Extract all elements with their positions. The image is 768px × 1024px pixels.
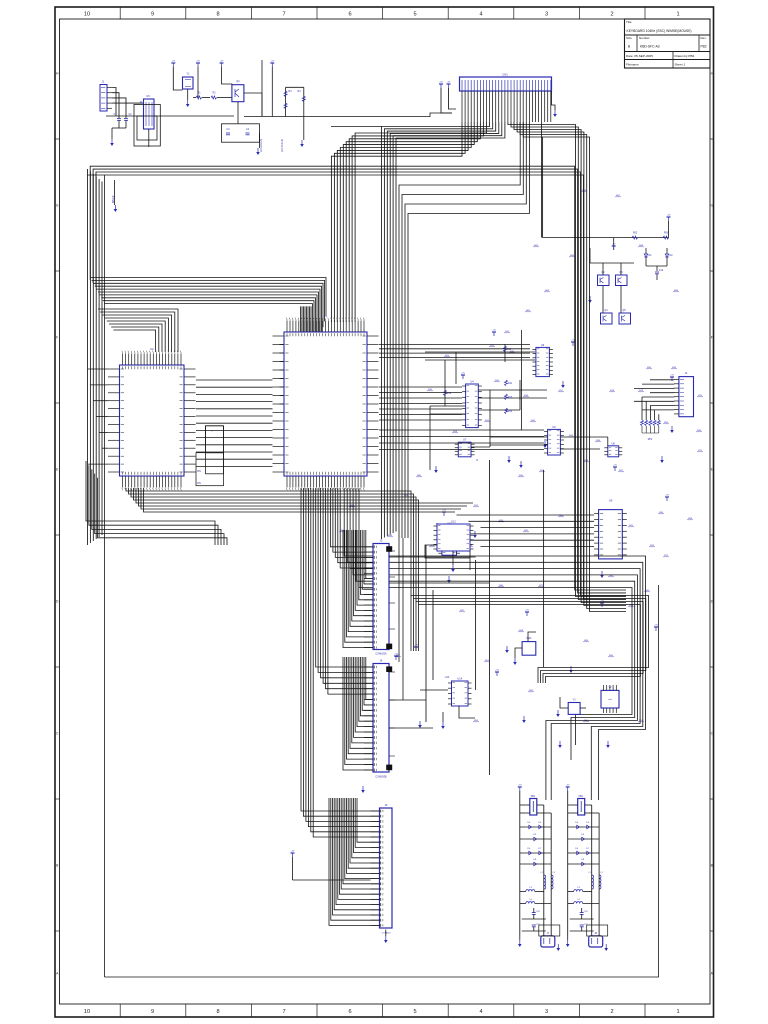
svg-text:+5V: +5V — [270, 61, 274, 63]
svg-text:Y3: Y3 — [573, 699, 577, 702]
ground symbol G7 — [434, 466, 438, 473]
ground symbol G9 — [561, 381, 565, 388]
svg-text:D5: D5 — [581, 834, 585, 836]
wire bus U2 left pin feeds — [88, 369, 109, 464]
wire staircase near J4 — [343, 657, 373, 770]
svg-text:FB1: FB1 — [531, 796, 536, 798]
net label N61 — [697, 395, 703, 397]
wire bus CN1 left staircase to U1 top — [331, 122, 486, 322]
resistor row RN2 under J2 — [641, 420, 661, 441]
diode D1 — [644, 248, 652, 266]
net label N36 — [608, 575, 614, 577]
wire Q2-Q5 network — [590, 248, 634, 313]
svg-text:RP2: RP2 — [648, 439, 653, 441]
diode row 4 J7 — [520, 859, 551, 866]
net label N46 — [638, 720, 644, 722]
net label N29 — [658, 512, 664, 514]
svg-text:Q5: Q5 — [622, 309, 626, 312]
ground symbol G1 — [473, 531, 477, 538]
svg-text:L3: L3 — [577, 887, 580, 889]
net label N31 — [509, 351, 515, 353]
net label N30 — [687, 518, 693, 520]
wire bus CN1 right staircase — [508, 122, 626, 612]
net label N44 — [473, 720, 479, 722]
svg-text:H: H — [56, 72, 59, 76]
svg-text:C: C — [56, 732, 59, 736]
transistor Q2 pair — [598, 271, 610, 286]
svg-text:FB2: FB2 — [633, 233, 638, 235]
connector J2 right edge — [674, 371, 694, 417]
wire bus U1 right to U6 — [379, 430, 544, 450]
resistor R14 — [505, 408, 513, 414]
power flag VP9 — [654, 625, 658, 631]
net label N42 — [484, 660, 490, 662]
svg-text:9: 9 — [151, 1009, 154, 1015]
svg-text:J4: J4 — [380, 659, 383, 663]
svg-text:D4: D4 — [538, 822, 542, 824]
net label N64 — [628, 605, 634, 607]
power flag VP3 — [571, 340, 575, 346]
ground under U12 — [451, 551, 455, 572]
net label N10 — [638, 390, 644, 392]
power above J4 — [394, 654, 398, 660]
connector J3 — [364, 539, 392, 656]
net label N45 — [583, 720, 589, 722]
connector J8 (PS/2 jack) — [589, 932, 603, 947]
svg-text:+5V: +5V — [613, 465, 617, 467]
net label N50 — [339, 530, 345, 532]
wire J7 vertical pair through chain — [544, 805, 551, 936]
wire junction block right of U2 — [196, 426, 224, 486]
IC U3 — [532, 343, 553, 377]
svg-text:5: 5 — [413, 11, 416, 17]
svg-text:U2: U2 — [150, 347, 154, 351]
svg-text:+5V: +5V — [291, 851, 295, 853]
capacitor pair J7 — [522, 904, 546, 932]
svg-text:L1: L1 — [541, 872, 544, 874]
svg-text:+5V: +5V — [667, 215, 671, 217]
IC U14 — [448, 677, 472, 707]
net label near U14 — [445, 676, 450, 679]
net label N7 — [523, 395, 529, 397]
svg-text:D7: D7 — [586, 848, 590, 850]
svg-text:C1: C1 — [113, 113, 117, 116]
svg-text:+5V: +5V — [196, 61, 200, 63]
svg-text:Sheet 1: Sheet 1 — [675, 63, 686, 67]
power flag P3 — [220, 61, 232, 85]
svg-text:U4: U4 — [470, 380, 474, 384]
net label N33 — [530, 420, 536, 422]
net label N52 — [403, 495, 409, 497]
net label N4 — [504, 331, 510, 333]
IC U7 — [455, 438, 475, 457]
ground symbol G15 — [569, 666, 573, 673]
filter chain J8 power — [566, 785, 570, 935]
inductor horizontal 1 J8 — [568, 887, 592, 892]
ground right of loop — [256, 133, 260, 155]
net label N38 — [459, 610, 465, 612]
ground symbol G12 — [588, 296, 592, 303]
svg-text:C10: C10 — [659, 270, 664, 272]
svg-text:D8: D8 — [533, 859, 537, 861]
ground under J3 — [381, 651, 383, 658]
power flag VP8 — [525, 610, 529, 616]
net label N19 — [467, 545, 473, 547]
net label N8 — [558, 390, 564, 392]
transistor Q3 — [616, 271, 628, 286]
ground for C1 C2 — [110, 128, 126, 146]
svg-text:R2: R2 — [212, 92, 216, 95]
svg-text:RN: RN — [197, 470, 201, 473]
IC U6 — [544, 425, 564, 455]
svg-text:PB2: PB2 — [701, 45, 707, 49]
wire vertical x521 — [521, 330, 523, 430]
net label N3 — [489, 345, 495, 347]
svg-text:SW1: SW1 — [526, 637, 532, 640]
wire bus left vertical group — [88, 169, 105, 977]
power flag VP1 — [492, 330, 496, 336]
transistor Q5 — [619, 309, 631, 324]
net label N35 — [583, 460, 589, 462]
svg-text:U3: U3 — [541, 343, 545, 347]
svg-text:D4: D4 — [586, 822, 590, 824]
net stub left of J6 — [291, 851, 371, 880]
net label N43 — [528, 690, 534, 692]
ground J7 right — [557, 944, 561, 951]
power flag P1 — [171, 61, 182, 90]
net label N27 — [595, 440, 601, 442]
net label N37 — [644, 590, 650, 592]
power flag VP7 — [442, 510, 446, 516]
wire staircase near J3 — [343, 530, 373, 648]
svg-text:4: 4 — [479, 11, 482, 17]
inductor L-J7 (top component) — [520, 796, 551, 815]
net label N11 — [518, 475, 524, 477]
wire upper right rail — [543, 137, 669, 238]
net label N57 — [581, 190, 587, 192]
wire bus feed to J3 J4 J6 — [301, 488, 380, 837]
svg-text:2: 2 — [610, 11, 613, 17]
wire bus CN1 west turn group — [399, 122, 529, 538]
svg-text:B: B — [56, 864, 59, 868]
diode row 2 J8 — [568, 834, 599, 841]
resistor R2 — [211, 92, 232, 100]
ground symbol G8 — [519, 461, 523, 468]
ground symbol G6 — [660, 456, 664, 463]
IC U9 — [594, 499, 627, 559]
connector J7 (PS/2 jack) — [541, 932, 555, 947]
svg-text:+5V: +5V — [612, 244, 616, 246]
wire bus CN1 middle drop — [382, 122, 505, 539]
svg-text:U9: U9 — [609, 499, 613, 503]
capacitor C3 — [226, 128, 230, 135]
wire bus U1 right to U3 — [379, 345, 530, 358]
svg-text:+5V: +5V — [461, 373, 465, 375]
net label N21 — [498, 585, 504, 587]
IC U13 — [476, 459, 478, 461]
svg-text:L2: L2 — [553, 872, 556, 874]
wire long verticals mid — [426, 460, 544, 775]
connector J4 right stubs — [389, 672, 433, 756]
diode row 3 J8 — [568, 848, 599, 855]
IC U10 — [438, 522, 460, 556]
diode row 3 J7 — [520, 848, 551, 855]
ground symbol G2 — [600, 571, 604, 578]
title block — [625, 19, 711, 68]
power flag VP4 — [613, 465, 617, 471]
svg-text:R14: R14 — [508, 411, 513, 413]
svg-text:L2: L2 — [600, 872, 603, 874]
svg-text:KEYBOARD 104Ke (SSC) W/MSE(MOU: KEYBOARD 104Ke (SSC) W/MSE(MOUSE) — [627, 29, 692, 33]
power flag VP6 — [600, 601, 604, 607]
ground symbol G5 — [507, 456, 511, 463]
svg-text:C20: C20 — [536, 911, 541, 913]
inductor horizontal 1 J7 — [520, 887, 544, 892]
svg-text:+5V: +5V — [171, 61, 175, 63]
wire bus left horizontal rows — [90, 278, 326, 369]
net label N18 — [538, 585, 544, 587]
net label N20 — [429, 545, 435, 547]
svg-text:1: 1 — [676, 1009, 679, 1015]
net label N22 — [523, 530, 529, 532]
svg-text:D6: D6 — [527, 848, 531, 850]
power flag VP5 — [665, 495, 669, 501]
svg-text:9: 9 — [151, 11, 154, 17]
net label N13 — [473, 505, 479, 507]
svg-text:CN1: CN1 — [502, 73, 508, 77]
svg-text:G: G — [56, 204, 59, 208]
svg-text:+5V: +5V — [220, 61, 224, 63]
diode row 1 J8 — [568, 822, 599, 829]
svg-text:Date: 05-SEP-2005: Date: 05-SEP-2005 — [626, 54, 653, 58]
svg-text:D8: D8 — [581, 859, 585, 861]
ground at CN1 right — [552, 91, 557, 117]
svg-text:U14: U14 — [445, 676, 450, 679]
net label N17 — [649, 545, 655, 547]
IC U8 — [604, 441, 622, 457]
wire box around J8 — [585, 925, 608, 942]
net label N9 — [609, 390, 615, 392]
svg-text:(C2-TXD+5): (C2-TXD+5) — [281, 139, 284, 152]
crystal Y1 — [183, 72, 194, 90]
svg-text:FB3: FB3 — [664, 233, 669, 235]
wire CN1 pin drops — [462, 91, 551, 122]
svg-text:U5: U5 — [146, 94, 150, 98]
IC U12 — [434, 520, 474, 552]
svg-text:D3: D3 — [527, 822, 531, 824]
ground symbol G10 — [615, 536, 619, 543]
net label N56 — [533, 245, 539, 247]
IC U11 — [436, 523, 438, 525]
svg-text:1: 1 — [676, 11, 679, 17]
svg-text:R11: R11 — [508, 383, 513, 385]
svg-text:J6: J6 — [385, 803, 388, 807]
svg-text:D: D — [56, 600, 59, 604]
svg-text:C3: C3 — [226, 128, 230, 131]
svg-text:5: 5 — [413, 1009, 416, 1015]
svg-text:Y1: Y1 — [186, 72, 190, 76]
wire topleft to CN1 power — [304, 113, 452, 117]
wire bus U1 left pin feeds — [280, 306, 327, 404]
svg-text:J1: J1 — [102, 80, 105, 84]
wire stub y126 west — [331, 126, 382, 128]
net label N59 — [638, 245, 644, 247]
net label N55 — [569, 255, 575, 257]
svg-text:R10: R10 — [507, 349, 512, 351]
svg-text:F: F — [711, 336, 713, 340]
ground symbol G20 — [361, 786, 365, 793]
wire J8 vertical pair through chain — [592, 805, 599, 936]
wire stub from Q1 to right — [244, 93, 262, 116]
ground symbol G4 — [468, 416, 472, 423]
net label N47 — [387, 535, 393, 537]
net label N49 — [349, 505, 355, 507]
net label N28 — [618, 470, 624, 472]
power flag VP11 — [414, 645, 418, 651]
ground symbol G3 — [543, 441, 547, 448]
svg-text:CONN20A: CONN20A — [375, 653, 387, 656]
wire bus funnel to U2 top — [98, 309, 178, 352]
net label stub left — [113, 180, 117, 212]
connector J4 — [364, 659, 392, 779]
net label N40 — [583, 640, 589, 642]
capacitor C10 — [646, 266, 667, 280]
net label N51 — [416, 475, 422, 477]
diode row 1 J7 — [520, 822, 551, 829]
svg-text:D2: D2 — [669, 254, 673, 257]
inductor horizontal 2 J8 — [568, 899, 599, 904]
svg-text:6: 6 — [348, 11, 351, 17]
svg-text:+5V: +5V — [566, 785, 570, 787]
wires mid right mesh — [425, 344, 608, 470]
power flag VP12 — [670, 375, 674, 381]
svg-text:D6: D6 — [575, 848, 579, 850]
svg-text:7: 7 — [282, 11, 285, 17]
ground symbol G17 — [606, 741, 610, 748]
net label N32 — [494, 380, 500, 382]
wire Q1 bottom loop with caps — [222, 102, 260, 143]
net label N60 — [673, 290, 679, 292]
ground J8 left — [566, 935, 570, 947]
svg-text:6: 6 — [348, 1009, 351, 1015]
svg-text:L4: L4 — [577, 899, 580, 901]
inductor pair J8 — [588, 872, 603, 889]
diode row 4 J8 — [568, 859, 599, 866]
diode D2 — [665, 248, 673, 266]
svg-text:U1: U1 — [324, 314, 328, 318]
svg-text:D3: D3 — [575, 822, 579, 824]
power flag VP2 — [461, 373, 465, 379]
connector J1 — [100, 80, 112, 112]
inductor L-J8 (top component) — [568, 796, 599, 815]
svg-text:Drawn by PB2: Drawn by PB2 — [675, 54, 695, 58]
resistor R11 — [505, 380, 513, 386]
svg-text:8: 8 — [216, 11, 219, 17]
ground symbol G13 — [447, 576, 451, 583]
resistor R12 — [444, 390, 452, 396]
svg-text:3: 3 — [545, 11, 548, 17]
net label N26 — [646, 367, 652, 369]
net label N16 — [628, 525, 634, 527]
svg-text:J3: J3 — [380, 539, 383, 543]
svg-text:(C2-RXD+5): (C2-RXD+5) — [260, 139, 263, 152]
net label N53 — [525, 310, 531, 312]
svg-text:Number: Number — [639, 36, 650, 40]
svg-text:+5V: +5V — [518, 785, 522, 787]
ground left of Y3 — [556, 697, 560, 717]
svg-text:R3: R3 — [288, 90, 292, 93]
svg-text:U14: U14 — [457, 677, 462, 681]
transistor Q4 — [601, 309, 613, 324]
svg-text:R12: R12 — [447, 393, 452, 395]
svg-text:Y2: Y2 — [609, 686, 613, 689]
ground J7 left — [518, 935, 522, 947]
svg-text:8: 8 — [216, 1009, 219, 1015]
net label N25 — [671, 367, 677, 369]
ground J8 right — [604, 944, 608, 951]
capacitor C2 — [124, 113, 132, 128]
wire U2-U1 interconnect — [196, 380, 273, 466]
svg-text:2: 2 — [610, 1009, 613, 1015]
wire staircase near J6 — [329, 798, 380, 925]
svg-text:A: A — [56, 972, 59, 976]
regulator U5 — [140, 94, 154, 129]
net label N6 — [484, 420, 490, 422]
capacitor C4 — [246, 128, 250, 135]
svg-text:CONN20B: CONN20B — [375, 776, 387, 779]
svg-text:U7: U7 — [463, 438, 467, 442]
svg-text:+5V: +5V — [492, 330, 496, 332]
capacitor pair J8 — [570, 904, 594, 932]
wire CN1 to upper right rail — [541, 122, 543, 238]
svg-text:+5V: +5V — [654, 625, 658, 627]
svg-text:FB1: FB1 — [579, 796, 584, 798]
rail components upper right — [612, 233, 669, 251]
svg-text:+5V: +5V — [525, 610, 529, 612]
net label N1 — [427, 389, 433, 391]
net label N12 — [539, 470, 545, 472]
svg-text:KBD-SFC-A3: KBD-SFC-A3 — [640, 45, 660, 49]
svg-text:10: 10 — [84, 1009, 90, 1015]
resistor R13 — [505, 394, 513, 400]
svg-text:Q1: Q1 — [236, 79, 240, 83]
net label N5 — [452, 431, 458, 433]
svg-text:Rev: Rev — [701, 36, 707, 40]
resistor ladder R3 R4 R5 — [244, 87, 305, 120]
net label N63 — [663, 555, 669, 557]
svg-text:L3: L3 — [530, 887, 533, 889]
svg-text:4: 4 — [479, 1009, 482, 1015]
svg-text:G: G — [710, 204, 713, 208]
inductor horizontal 2 J7 — [520, 899, 551, 904]
transistor Q1 — [232, 79, 244, 102]
ground symbol G14 — [505, 646, 509, 653]
net label N24 — [696, 430, 702, 432]
resistor R1 — [193, 92, 210, 100]
wire U14 net — [420, 690, 475, 722]
connector J6 — [371, 803, 393, 935]
svg-text:J8: J8 — [594, 932, 597, 935]
net label vertical C2-TXD — [281, 139, 284, 152]
wire verticals beside J3 — [399, 538, 403, 700]
net label N54 — [544, 290, 550, 292]
svg-text:C20: C20 — [584, 911, 589, 913]
svg-text:Q4: Q4 — [604, 309, 608, 312]
wire bus fan east lower group — [411, 596, 649, 684]
IC U15 oscillator block — [601, 685, 619, 713]
svg-text:+5V: +5V — [447, 82, 451, 84]
svg-text:J2: J2 — [685, 371, 688, 375]
